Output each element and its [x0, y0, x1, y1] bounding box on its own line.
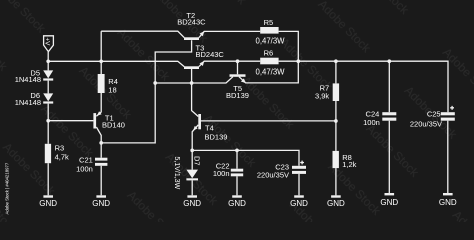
resistor R8 1,2k — [333, 151, 357, 169]
wire T3 emitter to R6 — [199, 61, 260, 66]
ground C25 — [439, 193, 457, 207]
ground R8 — [327, 195, 345, 208]
junction +V rail at R4 — [99, 59, 103, 63]
svg-text:Adobe Stock | #404218977: Adobe Stock | #404218977 — [5, 162, 10, 214]
wire T2 base down-left-down to T1 collector node — [101, 40, 191, 143]
wire R7 bottom — [335, 101, 337, 121]
junction R7/R8/T4 base — [334, 119, 338, 123]
resistor R7 3,9k — [315, 83, 339, 101]
svg-text:BD140: BD140 — [102, 121, 125, 130]
wire C22 top — [236, 150, 238, 168]
wire D7 anode — [191, 150, 193, 169]
wire R6 right to node — [279, 60, 299, 62]
svg-text:GND: GND — [39, 199, 57, 208]
wire D5 cathode to D6 anode — [47, 81, 49, 94]
wire T4 emitter down — [192, 125, 198, 151]
svg-text:GND: GND — [92, 199, 110, 208]
junction T1 base / D6 / R3 — [46, 119, 50, 123]
wire R4 top — [100, 61, 102, 74]
wire T5 emitter to node — [239, 61, 298, 83]
wire T1 base — [48, 120, 93, 122]
wire C21 top — [100, 143, 102, 158]
wire T2 emitter to R5 — [199, 31, 260, 37]
wire R8 to ground — [335, 168, 337, 195]
svg-text:18: 18 — [108, 85, 116, 94]
svg-text:R3: R3 — [55, 143, 65, 152]
wire R3 to ground — [47, 163, 49, 195]
junction C22 top — [235, 149, 239, 153]
svg-text:R5: R5 — [264, 18, 274, 27]
wire R5 right corner down — [279, 31, 299, 61]
svg-text:100n: 100n — [76, 164, 93, 173]
wire C25 to ground — [447, 121, 449, 193]
svg-text:GND: GND — [380, 198, 398, 207]
resistor R3 4,7k — [45, 143, 69, 163]
wire node to R3 — [47, 121, 49, 144]
svg-text:BD243C: BD243C — [177, 17, 206, 26]
+V supply terminal — [44, 36, 54, 52]
svg-text:C21: C21 — [79, 155, 93, 164]
diode D5 1N4148 — [15, 68, 53, 84]
wire C24 to ground — [388, 121, 390, 193]
wire C23 to ground — [298, 174, 300, 195]
wire R4 to T1 emitter — [96, 93, 101, 116]
wire T4 base to R7 bottom — [201, 120, 336, 122]
wire top rail to T2 collector — [101, 31, 184, 37]
ground C23 — [290, 195, 308, 208]
svg-text:0,47/3W: 0,47/3W — [256, 68, 286, 77]
wire D7 cathode to ground — [191, 180, 193, 195]
junction R7 top on output rail — [334, 59, 338, 63]
wire T1 collector down — [96, 127, 101, 143]
svg-text:GND: GND — [183, 199, 201, 208]
resistor R6 0,47/3W — [256, 49, 286, 77]
wire +V stem — [47, 52, 49, 62]
zener diode D7 5,1V/1,3W — [173, 156, 201, 190]
transistor T1 BD140 — [93, 111, 125, 129]
junction T3 base on bus — [190, 81, 194, 85]
transistor T3 BD243C — [184, 43, 224, 69]
svg-text:T4: T4 — [205, 124, 214, 133]
wire C21 to ground — [100, 166, 102, 196]
resistor R4 18 — [98, 74, 118, 94]
svg-text:GND: GND — [290, 199, 308, 208]
wire vertical branch up at x=101 — [100, 31, 102, 61]
wire output rail to C25 — [298, 61, 448, 112]
ground C24 — [380, 193, 398, 207]
wire C24 top — [388, 61, 390, 112]
wire C22 to ground — [236, 176, 238, 195]
capacitor C23 220u/35V — [257, 161, 306, 180]
wire T5 base — [237, 61, 239, 74]
svg-text:BD139: BD139 — [226, 91, 249, 100]
wire R7 top — [335, 61, 337, 83]
svg-text:1N4148: 1N4148 — [15, 75, 41, 84]
junction C24 top on output rail — [387, 59, 391, 63]
wire D6 cathode to T1 base node — [47, 104, 49, 121]
wire R8 top — [335, 121, 337, 151]
svg-text:GND: GND — [327, 199, 345, 208]
svg-text:220u/35V: 220u/35V — [257, 170, 289, 179]
ground C22 — [228, 195, 246, 208]
wire D5 anode — [47, 61, 49, 70]
wire base bus y=83 to T5 collector — [155, 77, 233, 83]
junction R5/R6 output node — [296, 59, 300, 63]
resistor R5 0,47/3W — [256, 18, 286, 46]
svg-text:1,2k: 1,2k — [342, 160, 356, 169]
junction T2 base bus left — [153, 81, 157, 85]
ground C21 — [92, 195, 110, 208]
svg-text:GND: GND — [439, 198, 457, 207]
svg-text:1N4148: 1N4148 — [15, 98, 41, 107]
capacitor C24 100n — [363, 110, 396, 128]
svg-text:100n: 100n — [213, 169, 230, 178]
ground D7 — [183, 195, 201, 208]
wire emitter node bus to C23 — [192, 150, 299, 165]
wire +V rail to T3 collector — [48, 61, 184, 66]
svg-text:+V: +V — [44, 37, 51, 46]
svg-text:100n: 100n — [363, 118, 380, 127]
svg-text:D7: D7 — [193, 156, 202, 166]
svg-text:BD243C: BD243C — [196, 50, 225, 59]
wire T3 base down to T4 collector — [192, 69, 199, 117]
junction T4 emitter / D7 — [190, 149, 194, 153]
capacitor C25 220u/35V — [410, 106, 455, 128]
svg-text:0,47/3W: 0,47/3W — [256, 36, 286, 45]
capacitor C22 100n — [213, 162, 243, 178]
junction T1 collector / C21 — [99, 141, 103, 145]
svg-text:R6: R6 — [264, 49, 274, 58]
diode D6 1N4148 — [15, 91, 53, 107]
svg-text:4,7k: 4,7k — [55, 153, 69, 162]
svg-text:5,1V/1,3W: 5,1V/1,3W — [173, 157, 180, 190]
junction +V rail at D5 — [46, 59, 50, 63]
capacitor C21 100n — [76, 155, 107, 173]
svg-text:220u/35V: 220u/35V — [410, 119, 442, 128]
transistor T5 BD139 — [226, 74, 249, 100]
svg-text:GND: GND — [228, 199, 246, 208]
svg-text:C25: C25 — [427, 110, 441, 119]
svg-text:BD139: BD139 — [205, 132, 228, 141]
transistor T2 BD243C — [177, 11, 206, 40]
svg-text:3,9k: 3,9k — [315, 91, 329, 100]
junction T5 base on R6 line — [236, 59, 240, 63]
ground R3 — [39, 195, 57, 208]
transistor T4 BD139 — [193, 114, 227, 141]
